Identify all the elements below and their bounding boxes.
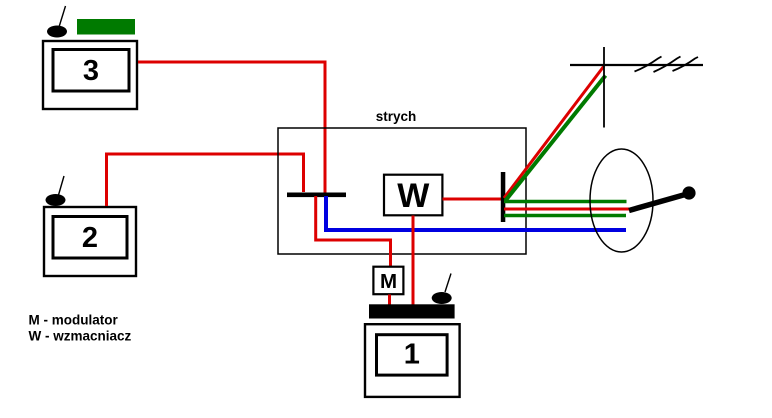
- outlet wire green lower: [504, 214, 626, 218]
- svg-text:M: M: [380, 270, 397, 293]
- outlet wire green upper: [504, 200, 627, 204]
- svg-text:3: 3: [83, 55, 99, 87]
- wire M to TV1 VCR (red): [388, 295, 391, 307]
- svg-text:strych: strych: [376, 109, 417, 124]
- antenna junction bar node B: [501, 172, 506, 222]
- antenna feed diagonal (green): [506, 76, 606, 201]
- svg-text:W: W: [397, 177, 430, 215]
- TV set 1 cabinet: [365, 324, 460, 397]
- antenna mast vertical: [603, 47, 605, 128]
- amplifier W box: [384, 175, 442, 216]
- TV set 1 screen: [377, 335, 448, 375]
- svg-text:2: 2: [82, 222, 98, 254]
- TV set 2 screen: [53, 217, 127, 259]
- outlet lever arm: [629, 194, 687, 211]
- attic (strych) boundary box: [278, 128, 526, 254]
- svg-text:1: 1: [404, 339, 420, 371]
- TV set 2 antenna blob: [46, 176, 66, 206]
- antenna element slash 1: [635, 57, 662, 72]
- outlet lever knob: [682, 186, 695, 199]
- wire TV3 to splitter (red): [138, 62, 325, 193]
- wire W output to antenna bar (red): [443, 198, 503, 201]
- wire splitter to wall outlet (blue): [326, 196, 626, 230]
- modulator M box: [373, 267, 403, 295]
- svg-text:M - modulator: M - modulator: [29, 313, 119, 328]
- splitter bar node A: [287, 193, 346, 198]
- svg-text:W - wzmacniacz: W - wzmacniacz: [29, 329, 132, 344]
- TV set 1 VCR black box: [369, 304, 455, 318]
- wire W input down to TV1 VCR (red): [412, 216, 415, 306]
- TV set 2 cabinet: [44, 207, 136, 276]
- wall outlet ellipse: [590, 149, 653, 252]
- TV set 3 cabinet: [43, 41, 137, 109]
- TV set 3 antenna blob: [47, 6, 67, 38]
- antenna boom horizontal: [570, 64, 703, 66]
- outlet wire red middle: [504, 208, 629, 211]
- wire splitter to modulator M (red): [316, 196, 391, 267]
- wire TV2 to splitter (red): [107, 154, 304, 206]
- TV set 1 antenna blob: [432, 274, 452, 305]
- antenna element slash 3: [673, 57, 699, 71]
- TV set 3 screen: [53, 50, 129, 92]
- TV set 3 green VCR box: [77, 19, 135, 35]
- antenna feed diagonal (red): [504, 66, 604, 198]
- antenna element slash 2: [654, 57, 681, 73]
